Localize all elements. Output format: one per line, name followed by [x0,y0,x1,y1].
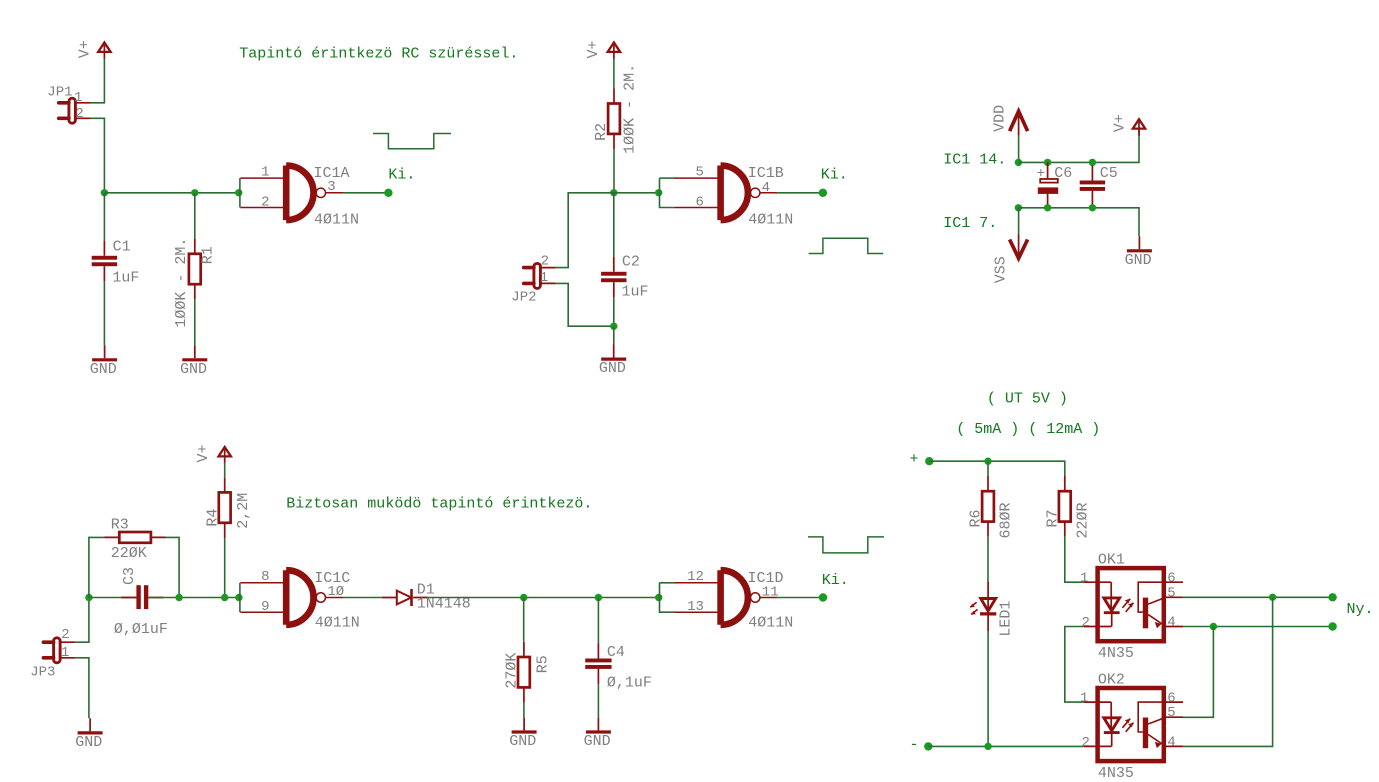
wire OK1 pin 4 to Ny. lower node [1183,626,1333,628]
VSS supply symbol [1010,234,1028,258]
wire R2 to node B [613,149,615,193]
NAND gate IC1B (4011N) [675,166,778,221]
junction VSS rail at C5 [1089,204,1096,211]
junction node B (R2/C2 column) [610,189,617,196]
junction OK1 pin 4 branch [1210,623,1217,630]
wire R6 to LED1 [987,537,989,583]
wire IC1C output to D1 [343,597,382,599]
optocoupler OK1 (4N35) [1084,568,1183,641]
terminal dot Ki. output (circuit 3) [819,593,827,601]
svg-text:9: 9 [261,599,269,615]
wire V+ to JP1 pin 1 [91,58,105,103]
svg-text:1ØØK - 2M.: 1ØØK - 2M. [621,64,638,154]
junction VDD rail at C5 [1089,159,1096,166]
wire IC1B output to Ki. node [778,192,823,194]
wire node B to IC1B bracket [614,192,660,194]
wire IC1D output to Ki. node [778,597,823,599]
svg-text:6: 6 [1167,570,1175,586]
svg-text:Ki.: Ki. [388,166,415,183]
svg-text:1uF: 1uF [112,269,139,286]
wire R5 to ground [523,703,525,718]
wire LED1 to - rail [987,631,989,746]
junction node D at IC1C input bracket [235,594,242,601]
svg-text:OK2: OK2 [1098,672,1125,689]
svg-text:V+: V+ [195,444,212,462]
wire JP2 pin 1 down to node C [556,283,614,326]
svg-text:VDD: VDD [991,105,1008,132]
wire R1 to ground [194,299,196,345]
svg-text:13: 13 [687,599,704,615]
junction node A at IC1A input bracket [235,189,242,196]
svg-text:4Ø11N: 4Ø11N [315,614,360,631]
svg-text:6: 6 [1167,690,1175,706]
junction OK1 pin 5 branch [1269,594,1276,601]
wire V+ to R4 [224,463,226,478]
wire + rail down to R6 [987,461,989,476]
svg-text:R1: R1 [200,246,217,264]
svg-text:4: 4 [1167,734,1175,750]
output waveform symbol (negative pulse, circuit 3) [808,537,884,553]
svg-text:JP1: JP1 [47,85,72,101]
svg-text:( 5mA ) ( 12mA ): ( 5mA ) ( 12mA ) [956,421,1100,438]
svg-text:6: 6 [695,194,703,210]
resistor R7 body [1059,476,1071,537]
resistor R6 body [982,476,994,537]
svg-text:4Ø11N: 4Ø11N [748,212,793,229]
svg-text:2: 2 [75,106,83,122]
svg-text:1: 1 [261,164,269,180]
output waveform symbol (positive pulse, circuit 2) [809,238,884,253]
junction node B at IC1B input bracket [655,189,662,196]
wire R3 feedback loop left [89,537,104,597]
output waveform symbol (negative pulse, circuit 1) [373,134,451,149]
wire IC1B input bracket [660,178,676,207]
junction node D left (C3/R3 column) [85,594,92,601]
svg-text:JP2: JP2 [511,289,536,305]
ground symbol GND (below C4) [586,717,611,732]
ground symbol GND (below C2) [601,345,626,360]
svg-text:2: 2 [541,253,549,269]
wire OK1 pin 5 to Ny. node [1183,596,1333,598]
svg-text:-: - [910,737,919,754]
terminal dot Ny. upper [1328,593,1336,601]
svg-text:Ny.: Ny. [1347,601,1374,618]
ground symbol GND (below C1) [92,345,117,360]
svg-text:2: 2 [1081,735,1089,751]
svg-text:2: 2 [61,627,69,643]
jumper JP3 [43,638,75,663]
svg-text:1: 1 [74,90,82,106]
junction node D at R3/C3 right column [175,594,182,601]
resistor R5 body [518,642,530,703]
junction node D at R4 column [221,594,228,601]
svg-text:R3: R3 [111,517,129,534]
diode D1 (1N4148) [382,589,428,606]
NAND gate IC1D (4011N) [675,570,778,625]
svg-text:R4: R4 [204,509,221,527]
capacitor C1 body [92,241,117,282]
V+ supply symbol V+ (power block) [1133,119,1145,136]
wire R7 to OK1 pin 1 [1065,537,1084,582]
wire node A down to R1 [194,193,196,239]
svg-text:GND: GND [90,361,117,378]
svg-text:C6: C6 [1054,165,1072,182]
svg-text:R6: R6 [968,509,985,527]
svg-text:IC1 7.: IC1 7. [943,215,997,232]
junction + rail at R6 [984,458,991,465]
terminal dot - input [924,742,932,750]
capacitor C2 body [601,257,626,298]
NAND gate IC1A (4011N) [240,166,343,221]
svg-text:IC1 14.: IC1 14. [943,152,1006,169]
svg-text:V+: V+ [1111,114,1128,132]
svg-text:1uF: 1uF [622,283,649,300]
svg-text:GND: GND [584,733,611,750]
svg-text:2: 2 [261,194,269,210]
svg-text:1: 1 [540,270,548,286]
VDD rail wire [1018,128,1139,163]
svg-text:Ø,Ø1uF: Ø,Ø1uF [114,621,168,638]
wire JP3 pin 2 up to node D [75,598,89,643]
svg-text:Ki.: Ki. [822,572,849,589]
optocoupler OK2 (4N35) [1084,688,1183,761]
ground symbol GND (below JP3) [78,718,103,733]
wire IC1B top pin ext [660,177,676,179]
svg-text:1Ø: 1Ø [327,584,344,600]
svg-text:11: 11 [762,585,779,601]
resistor R2 body [608,88,620,149]
wire node A down to C1 [103,193,105,241]
svg-text:C4: C4 [607,644,625,661]
wire VDD to VDD rail [1018,135,1020,162]
NAND gate IC1C (4011N) [240,570,343,625]
svg-text:GND: GND [180,361,207,378]
svg-text:JP3: JP3 [30,665,55,681]
jumper JP1 [59,98,91,123]
svg-text:1: 1 [1080,570,1088,586]
svg-text:OK1: OK1 [1098,552,1125,569]
junction node E at IC1D input bracket [655,594,662,601]
wire OK1 pin4 branch down to OK2 pin 5 [1183,627,1213,718]
svg-text:C5: C5 [1100,165,1118,182]
svg-text:5: 5 [1167,705,1175,721]
capacitor C4 body [585,643,611,684]
junction node E at C4 column [595,594,602,601]
wire node C to ground [613,326,615,344]
wire IC1C input bracket [239,583,241,612]
wire node E down to C4 [597,598,599,644]
resistor R3 body [104,532,166,543]
wire D1 to IC1D bracket [428,597,659,599]
V+ supply symbol V+ (circuit 1) [98,43,110,60]
svg-text:+: + [910,451,919,468]
svg-text:2,2M: 2,2M [235,493,252,529]
LED LED1 [970,582,996,631]
svg-text:V+: V+ [77,40,94,58]
wire node B down to C2 [613,193,615,257]
wire IC1A input bracket [239,178,241,207]
terminal dot Ki. output (circuit 1) [384,189,392,197]
svg-text:5: 5 [695,164,703,180]
ground symbol GND (power block) [1127,236,1152,251]
svg-text:GND: GND [599,360,626,377]
resistor R4 body [219,477,231,538]
junction node A at R1 column [191,189,198,196]
svg-text:LED1: LED1 [997,601,1014,637]
jumper JP2 [524,263,556,288]
VDD supply symbol [1010,111,1028,135]
wire C3 to node D junctions [148,597,240,599]
svg-text:R7: R7 [1044,509,1061,527]
svg-text:4: 4 [1167,615,1175,631]
svg-text:22ØK: 22ØK [111,545,147,562]
terminal dot + input [925,457,933,465]
svg-text:22ØR: 22ØR [1075,502,1092,538]
junction node A (C1 column) [101,189,108,196]
wire VSS rail down at VSS [1018,208,1020,235]
wire JP1 pin 2 to node A [91,118,105,193]
svg-text:Ki.: Ki. [821,167,848,184]
svg-text:C3: C3 [121,567,138,585]
V+ supply symbol V+ (circuit 2) [608,43,620,60]
svg-text:V+: V+ [585,40,602,58]
wire node A to gate IC1A inputs [104,192,240,194]
svg-text:2: 2 [1081,615,1089,631]
svg-text:12: 12 [687,569,704,585]
wire IC1D input bracket [660,583,676,612]
svg-text:C1: C1 [113,239,131,256]
svg-text:4: 4 [762,180,770,196]
wire IC1A output to Ki. node [343,192,388,194]
junction VDD rail at C6 [1044,159,1051,166]
svg-text:VSS: VSS [992,256,1009,283]
svg-text:Ø,1uF: Ø,1uF [607,675,652,692]
capacitor C3 body [121,585,163,609]
terminal dot Ki. output (circuit 2) [819,189,827,197]
wire V+ to R2 [613,58,615,88]
svg-text:4N35: 4N35 [1098,765,1134,782]
terminal dot Ny. lower [1328,622,1336,630]
svg-text:1: 1 [61,645,69,661]
junction VSS rail left [1015,204,1022,211]
svg-text:4Ø11N: 4Ø11N [748,614,793,631]
svg-text:Tapintó érintkezö RC szüréssel: Tapintó érintkezö RC szüréssel. [239,45,518,62]
svg-text:GND: GND [509,733,536,750]
svg-text:68ØR: 68ØR [998,502,1015,538]
junction node C (below C2) [610,323,617,330]
wire C4 to ground [597,684,599,717]
svg-text:1ØØK - 2M.: 1ØØK - 2M. [173,238,190,328]
junction VDD rail left [1015,159,1022,166]
svg-text:4N35: 4N35 [1098,645,1134,662]
wire node E down to R5 [523,598,525,642]
wire OK1 pin 2 to OK2 pin 1 [1065,627,1084,703]
svg-text:4Ø11N: 4Ø11N [314,212,359,229]
svg-text:( UT 5V ): ( UT 5V ) [987,391,1068,408]
svg-text:C2: C2 [622,253,640,270]
V+ supply symbol V+ (circuit 3) [219,447,231,464]
svg-text:27ØK: 27ØK [503,653,520,689]
wire IC1D top pin ext [660,582,676,584]
wire node D to C3 [89,597,136,599]
capacitor C5 body [1080,165,1105,206]
wire + rail [929,461,1065,476]
VSS rail wire [1018,208,1139,236]
svg-text:5: 5 [1167,585,1175,601]
ground symbol GND (below R1) [182,345,207,360]
junction VSS rail at C6 [1044,204,1051,211]
svg-text:R2: R2 [593,123,610,141]
wire - rail to OK2 pin 2 [928,745,1084,747]
junction node E at R5 column [520,594,527,601]
wire R4 to node D [224,538,226,598]
wire OK1 pin5 branch down to OK2 pin 4 [1183,597,1273,746]
svg-text:Biztosan muködö tapintó érintk: Biztosan muködö tapintó érintkezö. [286,495,592,512]
svg-text:R5: R5 [534,655,551,673]
svg-text:GND: GND [75,734,102,751]
wire R3 feedback loop right [166,537,179,597]
svg-text:1: 1 [1080,690,1088,706]
svg-text:+: + [1037,166,1045,182]
capacitor C6 body (polarized) [1038,162,1058,207]
wire C1 to ground [103,281,105,345]
wire JP3 pin 1 down to ground [75,658,89,719]
junction - rail at LED1 column [984,743,991,750]
svg-text:3: 3 [327,179,335,195]
ground symbol GND (below R5) [512,717,537,732]
svg-text:GND: GND [1125,252,1152,269]
resistor R1 body [189,239,201,300]
svg-text:8: 8 [261,569,269,585]
wire C2 to node C [613,297,615,326]
wire JP2 pin 2 up to node B [556,193,614,268]
